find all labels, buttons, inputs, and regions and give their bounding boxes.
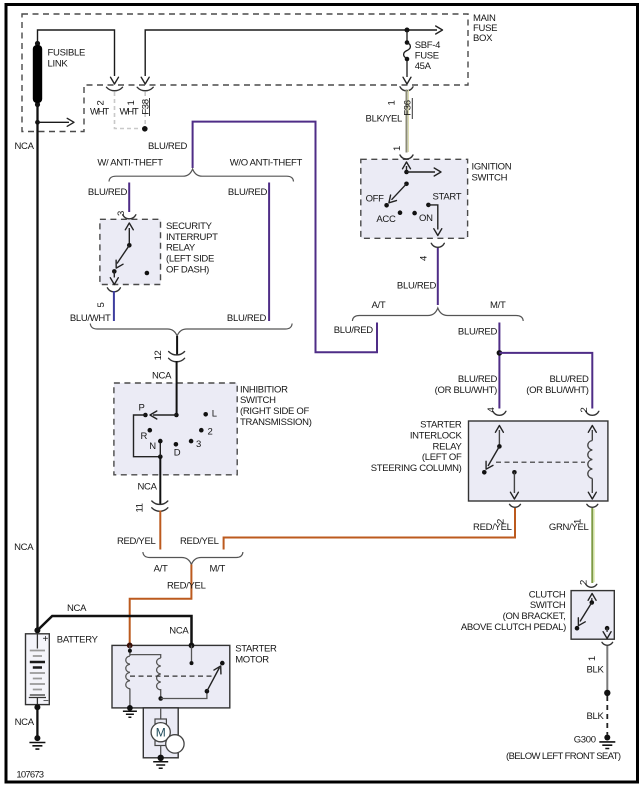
svg-text:(LEFT SIDE: (LEFT SIDE bbox=[166, 254, 214, 265]
svg-text:SWITCH: SWITCH bbox=[240, 395, 276, 406]
fuse SBF-4 symbol bbox=[403, 30, 411, 84]
svg-text:WHT: WHT bbox=[120, 106, 139, 117]
svg-text:BLU/RED: BLU/RED bbox=[227, 313, 267, 324]
wire WHT1 dashed white bbox=[144, 92, 146, 126]
svg-text:BLU/RED: BLU/RED bbox=[458, 374, 498, 385]
battery symbol bbox=[26, 627, 50, 710]
svg-text:BLU/RED: BLU/RED bbox=[550, 374, 590, 385]
svg-text:GRN/YEL: GRN/YEL bbox=[549, 522, 589, 533]
svg-text:A/T: A/T bbox=[372, 300, 386, 311]
starter interlock relay internals bbox=[482, 426, 596, 500]
svg-text:W/ ANTI-THEFT: W/ ANTI-THEFT bbox=[97, 157, 163, 168]
brace join RED/YEL A/T M/T bbox=[143, 552, 243, 565]
clutch switch internals bbox=[575, 594, 611, 639]
wire WHT2 dashed white bbox=[115, 92, 142, 129]
ground battery negative bbox=[29, 735, 45, 749]
mechanical link dashed bbox=[130, 675, 213, 677]
svg-text:SECURITY: SECURITY bbox=[166, 221, 213, 232]
wire GRN/YEL relay to clutch switch bbox=[591, 508, 593, 583]
svg-text:START: START bbox=[433, 192, 462, 203]
solenoid switch contacts bbox=[191, 645, 193, 663]
svg-text:RED/YEL: RED/YEL bbox=[167, 581, 206, 592]
svg-text:RED/YEL: RED/YEL bbox=[473, 522, 512, 533]
svg-text:STARTER: STARTER bbox=[235, 644, 277, 655]
starter interlock relay box bbox=[469, 421, 608, 501]
wire BLU/RED (OR BLU/WHT) to relay pin 2 bbox=[499, 353, 592, 409]
arrow down into WHT2 connector bbox=[111, 77, 119, 84]
wire RED/YEL A/T from connector 11 bbox=[159, 511, 161, 550]
svg-text:RELAY: RELAY bbox=[166, 243, 196, 254]
svg-text:NCA: NCA bbox=[15, 717, 35, 728]
svg-text:(BELOW LEFT FRONT SEAT): (BELOW LEFT FRONT SEAT) bbox=[506, 751, 621, 762]
svg-text:NCA: NCA bbox=[169, 626, 189, 637]
svg-text:BLU/RED: BLU/RED bbox=[334, 325, 374, 336]
svg-text:2: 2 bbox=[579, 580, 590, 585]
svg-text:L: L bbox=[212, 409, 217, 420]
svg-text:BLK: BLK bbox=[587, 711, 605, 722]
wire BLU/WHT security relay output bbox=[113, 291, 115, 321]
connector arc clutch switch output pin 1 bbox=[602, 642, 613, 645]
connector arc relay pin 4 bbox=[493, 411, 506, 415]
svg-text:RELAY: RELAY bbox=[433, 441, 463, 452]
svg-text:M/T: M/T bbox=[210, 564, 226, 575]
svg-text:SWITCH: SWITCH bbox=[472, 172, 508, 183]
connector arc security relay input pin 3 bbox=[123, 215, 136, 219]
svg-text:RED/YEL: RED/YEL bbox=[117, 536, 156, 547]
svg-text:NCA: NCA bbox=[138, 482, 158, 493]
svg-text:12: 12 bbox=[153, 351, 164, 361]
splice node F38 bbox=[142, 126, 148, 132]
svg-text:M: M bbox=[156, 726, 166, 740]
svg-text:(OR BLU/WHT): (OR BLU/WHT) bbox=[435, 385, 498, 396]
wire branch arrow right from NCA bbox=[38, 121, 70, 123]
connector arc clutch switch input pin 2 bbox=[586, 584, 597, 587]
brace split A/T M/T (ignition output) bbox=[352, 308, 523, 321]
ground starter solenoid bbox=[127, 705, 133, 711]
fusible link FL bbox=[33, 41, 42, 107]
svg-text:R: R bbox=[141, 431, 148, 442]
svg-text:NCA: NCA bbox=[152, 371, 172, 382]
wire BLU/RED W/ anti-theft branch to security relay bbox=[128, 183, 130, 213]
svg-text:BLK/YEL: BLK/YEL bbox=[366, 114, 402, 125]
svg-text:OF DASH): OF DASH) bbox=[166, 265, 209, 276]
svg-text:SBF-4: SBF-4 bbox=[415, 40, 440, 51]
svg-text:5: 5 bbox=[96, 302, 107, 307]
svg-text:INHIBITIOR: INHIBITIOR bbox=[240, 384, 288, 395]
svg-text:MOTOR: MOTOR bbox=[235, 654, 269, 665]
svg-text:RED/YEL: RED/YEL bbox=[180, 536, 219, 547]
svg-text:SWITCH: SWITCH bbox=[530, 600, 566, 611]
svg-text:IGNITION: IGNITION bbox=[472, 161, 512, 172]
svg-text:107673: 107673 bbox=[16, 770, 43, 781]
svg-text:ON: ON bbox=[419, 213, 433, 224]
svg-text:WHT: WHT bbox=[90, 106, 109, 117]
svg-text:(RIGHT SIDE OF: (RIGHT SIDE OF bbox=[240, 406, 309, 417]
svg-text:D: D bbox=[174, 447, 181, 458]
connector 11 (wire to wire) bbox=[152, 501, 168, 504]
wire RED/YEL M/T from interlock relay bbox=[224, 508, 515, 550]
svg-text:FUSIBLE: FUSIBLE bbox=[48, 48, 86, 59]
svg-text:1: 1 bbox=[387, 100, 398, 105]
ground G300 bbox=[599, 735, 615, 749]
connector arc ignition output bbox=[431, 243, 444, 247]
svg-text:G300: G300 bbox=[574, 735, 596, 746]
wire: fusible link feed bus A (battery + to WHT2) bbox=[38, 30, 115, 76]
security interrupt relay box bbox=[100, 219, 161, 284]
svg-text:FUSE: FUSE bbox=[415, 50, 439, 61]
ground starter motor bbox=[158, 755, 164, 761]
brace join into inhibitor feed bbox=[90, 324, 292, 337]
wire NCA battery bus to starter motor bbox=[37, 616, 191, 644]
wire RED/YEL to starter motor bbox=[130, 565, 192, 645]
svg-text:(ON BRACKET,: (ON BRACKET, bbox=[503, 611, 566, 622]
wire NCA battery main (fusible link to battery) bbox=[36, 105, 38, 631]
svg-text:2: 2 bbox=[208, 427, 213, 438]
svg-text:BLU/WHT: BLU/WHT bbox=[70, 313, 111, 324]
arrow right on bus B bbox=[436, 26, 443, 34]
security interrupt relay internals bbox=[110, 223, 149, 285]
svg-text:ABOVE CLUTCH PEDAL): ABOVE CLUTCH PEDAL) bbox=[461, 622, 566, 633]
wire NCA into inhibitor switch bbox=[176, 361, 178, 415]
svg-text:BATTERY: BATTERY bbox=[57, 635, 99, 646]
starter solenoid hold-in coil bbox=[157, 658, 161, 690]
svg-text:1: 1 bbox=[126, 100, 137, 105]
svg-text:INTERLOCK: INTERLOCK bbox=[410, 430, 463, 441]
clutch switch box bbox=[571, 591, 614, 640]
svg-text:STEERING COLUMN): STEERING COLUMN) bbox=[371, 463, 462, 474]
svg-text:W/O ANTI-THEFT: W/O ANTI-THEFT bbox=[230, 157, 303, 168]
svg-text:CLUTCH: CLUTCH bbox=[529, 589, 566, 600]
svg-text:TRANSMISSION): TRANSMISSION) bbox=[240, 417, 312, 428]
svg-text:(OR BLU/WHT): (OR BLU/WHT) bbox=[526, 385, 589, 396]
connector arc WHT1 pin bbox=[137, 87, 153, 90]
wire BLK/YEL F36 to ignition switch bbox=[406, 90, 408, 153]
svg-text:INTERRUPT: INTERRUPT bbox=[166, 232, 218, 243]
arrow down into WHT1 connector bbox=[141, 77, 149, 84]
connector 12 (wire to wire) bbox=[169, 352, 185, 355]
svg-text:P: P bbox=[139, 402, 145, 413]
svg-text:3: 3 bbox=[196, 439, 201, 450]
svg-text:LINK: LINK bbox=[48, 58, 69, 69]
svg-text:NCA: NCA bbox=[14, 542, 34, 553]
connector arc relay pin 2 bbox=[586, 411, 599, 415]
splice node BLK bbox=[604, 690, 610, 696]
svg-text:BLU/RED: BLU/RED bbox=[88, 187, 128, 198]
svg-text:BOX: BOX bbox=[473, 33, 493, 44]
wire BLU/RED M/T branch bbox=[498, 323, 500, 409]
svg-text:NCA: NCA bbox=[67, 603, 87, 614]
junction node M/T split bbox=[497, 350, 503, 356]
starter motor sub-box bbox=[143, 708, 178, 758]
svg-text:BLK: BLK bbox=[587, 665, 605, 676]
svg-text:STARTER: STARTER bbox=[420, 420, 462, 431]
svg-text:M/T: M/T bbox=[490, 300, 506, 311]
svg-text:BLU/RED: BLU/RED bbox=[148, 141, 188, 152]
svg-text:+: + bbox=[43, 634, 49, 645]
connector arc WHT2 pin bbox=[107, 87, 123, 90]
svg-text:N: N bbox=[149, 441, 156, 452]
svg-text:(LEFT OF: (LEFT OF bbox=[422, 452, 462, 463]
connector arc relay output pin 1 bottom bbox=[587, 504, 598, 507]
inhibitor switch internals bbox=[134, 411, 209, 459]
ignition switch box bbox=[361, 159, 468, 238]
brace split W/ anti-theft vs W/O anti-theft bbox=[109, 169, 294, 182]
wire: SBF-4 fuse bus B bbox=[145, 30, 437, 76]
wire NCA inhibitor output to connector 11 bbox=[159, 457, 161, 504]
connector arc relay output pin 2 bottom bbox=[510, 504, 521, 507]
svg-text:11: 11 bbox=[135, 503, 146, 512]
svg-text:BLU/RED: BLU/RED bbox=[228, 187, 268, 198]
main fuse box bbox=[22, 14, 468, 132]
connector arc F36 pin bbox=[400, 87, 413, 91]
junction node fusible link tap bbox=[35, 120, 40, 125]
wire BLU/RED ignition START output bbox=[437, 247, 439, 305]
svg-text:BLU/RED: BLU/RED bbox=[458, 327, 498, 338]
svg-text:BLU/RED: BLU/RED bbox=[397, 281, 437, 292]
inhibitor switch box bbox=[114, 383, 237, 475]
svg-text:4: 4 bbox=[419, 256, 430, 261]
wire BLK dashed to G300 bbox=[606, 696, 608, 735]
connector arc security relay output pin 5 bbox=[107, 288, 120, 292]
junction node at fuse tap bbox=[405, 28, 410, 33]
svg-text:1: 1 bbox=[392, 146, 403, 151]
starter motor internals bbox=[123, 643, 225, 718]
svg-text:45A: 45A bbox=[415, 61, 432, 72]
svg-text:NCA: NCA bbox=[15, 141, 35, 152]
svg-text:A/T: A/T bbox=[154, 564, 168, 575]
wire BLK clutch switch to splice bbox=[606, 646, 608, 690]
svg-text:−: − bbox=[43, 696, 49, 707]
connector arc ignition input bbox=[400, 155, 413, 159]
wire BLU/RED A/T branch to anti-theft split bbox=[193, 122, 377, 353]
svg-text:2: 2 bbox=[579, 407, 590, 412]
svg-text:ACC: ACC bbox=[376, 214, 396, 225]
starter motor box bbox=[112, 645, 230, 708]
svg-text:1: 1 bbox=[587, 656, 598, 661]
wire BLU/RED W/O anti-theft branch bbox=[268, 183, 270, 322]
svg-text:2: 2 bbox=[96, 100, 107, 105]
ignition switch internals bbox=[384, 162, 441, 236]
svg-text:4: 4 bbox=[486, 407, 497, 412]
coil of interlock relay bbox=[588, 441, 593, 479]
motor M symbol bbox=[151, 708, 184, 768]
svg-text:OFF: OFF bbox=[366, 194, 385, 205]
wire NCA battery negative bbox=[36, 707, 38, 738]
wire NCA to connector 12 bbox=[176, 336, 178, 355]
starter solenoid pull-in coil bbox=[126, 656, 130, 689]
svg-text:3: 3 bbox=[116, 211, 127, 216]
